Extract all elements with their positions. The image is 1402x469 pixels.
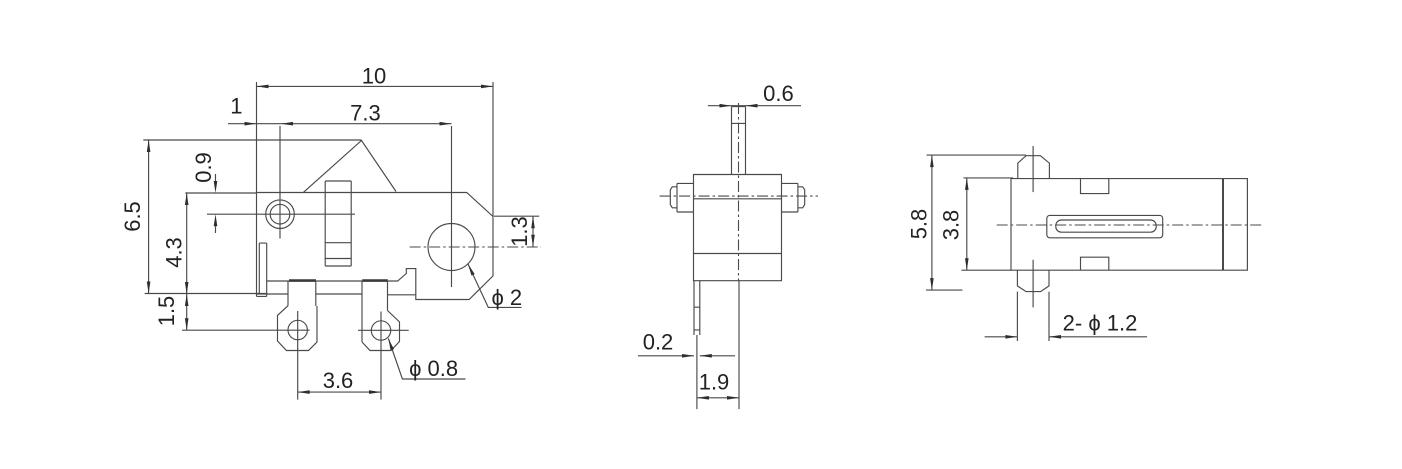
- dimension 4.3: [162, 193, 189, 294]
- svg-text:1.5: 1.5: [154, 296, 179, 327]
- lower boss pin: [1017, 260, 1049, 308]
- dimension 1.5: [154, 294, 310, 330]
- right trunnion: [782, 183, 805, 212]
- dimension 1.3: [494, 216, 539, 247]
- hole phi2: [410, 126, 541, 287]
- svg-text:0.2: 0.2: [643, 330, 674, 355]
- svg-text:0.6: 0.6: [763, 81, 794, 106]
- side plunger stem: [732, 107, 746, 175]
- dimension 7.3 and 1: [228, 94, 452, 126]
- upper boss pin: [1018, 146, 1050, 192]
- dimension 6.5: [120, 140, 362, 294]
- svg-text:1.9: 1.9: [699, 370, 730, 395]
- svg-text:ϕ 0.8: ϕ 0.8: [409, 356, 458, 381]
- actuator lever: [304, 141, 397, 193]
- svg-text:4.3: 4.3: [162, 237, 187, 268]
- svg-text:10: 10: [362, 64, 386, 89]
- svg-text:5.8: 5.8: [906, 209, 931, 240]
- svg-text:2- ϕ 1.2: 2- ϕ 1.2: [1063, 311, 1138, 336]
- side body: [694, 175, 782, 281]
- side centerlines: [660, 103, 818, 281]
- svg-text:1: 1: [230, 94, 242, 119]
- dimension 3.6: [298, 368, 381, 394]
- dimension 10: [257, 64, 494, 217]
- central slot: [1047, 215, 1163, 237]
- left terminal pin: [278, 281, 318, 400]
- thin front pin: [694, 281, 700, 409]
- mounting hole: [207, 126, 355, 239]
- dimension 5.8: [906, 155, 1026, 290]
- left trunnion: [670, 183, 693, 212]
- dimension 0.6: [708, 81, 801, 108]
- inner wall notch: [259, 243, 266, 294]
- rear pin line: [738, 281, 740, 409]
- top view centerline: [997, 224, 1264, 226]
- body notches: [1081, 179, 1109, 271]
- dimension 1.9: [697, 370, 739, 400]
- switch body outline: [257, 193, 494, 300]
- dimension 2-phi1.2: [985, 292, 1148, 341]
- dimension 0.2: [638, 330, 735, 358]
- svg-text:6.5: 6.5: [120, 201, 145, 232]
- label phi0.8 leader: [388, 339, 465, 382]
- top view body: [1011, 179, 1247, 271]
- label phi2 leader: [468, 264, 522, 310]
- svg-text:7.3: 7.3: [350, 101, 381, 126]
- dimension 3.8: [939, 178, 1014, 270]
- right terminal pin: [358, 281, 409, 400]
- dimension 0.9: [185, 152, 256, 233]
- svg-text:3.8: 3.8: [939, 210, 964, 241]
- svg-text:ϕ 2: ϕ 2: [491, 285, 522, 310]
- svg-text:1.3: 1.3: [507, 216, 532, 247]
- svg-text:0.9: 0.9: [191, 152, 216, 183]
- svg-text:3.6: 3.6: [323, 368, 354, 393]
- plunger slider: [325, 181, 351, 266]
